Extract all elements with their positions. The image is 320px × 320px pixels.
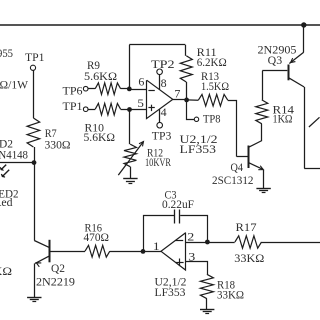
svg-text:R7: R7 — [45, 128, 57, 140]
node pin6 junction — [127, 87, 132, 92]
svg-text:TP3: TP3 — [152, 131, 172, 143]
svg-text:Q4: Q4 — [231, 162, 244, 174]
svg-text:Q2: Q2 — [51, 263, 65, 275]
wire TP2 to op-amp pin8 — [159, 75, 161, 90]
wire LED node to left edge — [0, 162, 34, 164]
svg-text:6: 6 — [138, 77, 144, 89]
wire top +V rail — [0, 24, 320, 26]
svg-text:33KΩ: 33KΩ — [234, 253, 264, 265]
wire Q2 emitter to ground — [34, 263, 36, 297]
wire node to op-amp apex — [143, 251, 161, 253]
svg-text:8: 8 — [161, 78, 167, 90]
transistor Q2 base wire to R16 — [50, 251, 85, 253]
wire op-amp pin3 — [186, 262, 208, 275]
op-amp minus sign pin6 — [148, 90, 154, 92]
transistor Q4 collector lead — [249, 141, 263, 148]
wire top to R11 — [185, 45, 187, 56]
svg-text:5.6KΩ: 5.6KΩ — [84, 71, 117, 83]
wire R12 to ground — [130, 167, 132, 179]
wire R14 top to Q3 base corner — [262, 71, 264, 100]
test point TP2 terminal — [157, 69, 163, 75]
wire bottom of right edge element — [304, 168, 320, 170]
svg-text:Q3: Q3 — [268, 55, 283, 67]
op-amp plus sign pin5 — [148, 107, 154, 109]
node op-amp U2 pin1 output junction — [141, 249, 146, 254]
test point TP6 terminal — [83, 86, 88, 91]
wire op-amp pin2 to R17 — [186, 242, 235, 244]
svg-text:TP1: TP1 — [25, 52, 45, 64]
node pin2/C3 junction — [205, 240, 210, 245]
svg-text:2SC1312: 2SC1312 — [212, 175, 254, 187]
wire pin5 node to op-amp — [130, 109, 147, 111]
wire C3 right to pin2 node — [180, 216, 207, 243]
wire R17 to right edge — [262, 242, 320, 244]
resistor R7 — [27, 118, 40, 147]
svg-text:TP6: TP6 — [63, 86, 83, 98]
svg-text:2: 2 — [187, 231, 194, 243]
node LED junction — [32, 160, 37, 165]
op-amp U2 first half LF353 (top) — [147, 80, 173, 118]
test point TP3 terminal — [157, 122, 163, 128]
resistor R10 — [95, 103, 120, 115]
wire op-amp pin4 to TP3 — [159, 109, 161, 122]
wire R13 to Q4 base — [228, 101, 237, 157]
wire R9 to pin6 node — [121, 88, 130, 90]
wire R18 to ground — [206, 299, 208, 310]
svg-text:LF353: LF353 — [155, 287, 186, 299]
svg-text:330Ω: 330Ω — [45, 140, 71, 152]
wire LED node down to Q2 collector — [34, 163, 36, 241]
svg-text:5: 5 — [137, 98, 144, 110]
transistor Q2 base bar — [49, 240, 51, 262]
svg-text:LF353: LF353 — [180, 144, 217, 156]
ground under Q2 — [27, 297, 41, 299]
svg-text:33KΩ: 33KΩ — [217, 290, 244, 302]
transistor Q2 emitter lead with arrow — [35, 256, 49, 263]
transistor Q3 base wire — [262, 70, 287, 72]
svg-text:470Ω: 470Ω — [84, 232, 110, 244]
svg-text:30Ω/1W: 30Ω/1W — [0, 80, 28, 92]
svg-text:1: 1 — [153, 241, 160, 253]
wire C3 left — [144, 216, 175, 252]
ground under Q4 — [256, 188, 270, 190]
svg-text:2N2219: 2N2219 — [36, 277, 75, 289]
transistor Q3 collector lead — [288, 78, 304, 87]
op-amp minus sign pin2 — [175, 240, 183, 242]
svg-text:0.22uF: 0.22uF — [162, 199, 194, 211]
wire output node to TP8 — [187, 100, 195, 120]
ground under R18 — [200, 309, 214, 311]
svg-text:1N955: 1N955 — [0, 48, 13, 60]
transistor Q3 emitter lead with arrow — [289, 52, 303, 63]
op-amp U2 second half LF353 (bottom) — [161, 233, 186, 270]
svg-text:1KΩ: 1KΩ — [273, 114, 293, 126]
node rail junction — [301, 22, 306, 27]
svg-text:Red: Red — [0, 197, 13, 209]
wire feedback from pin6 node up — [129, 45, 131, 89]
node pin7 output junction — [184, 98, 189, 103]
test point TP8 terminal — [194, 117, 198, 121]
svg-text:TP8: TP8 — [203, 114, 221, 126]
potentiometer R12 — [124, 144, 136, 167]
svg-text:TP1: TP1 — [63, 101, 83, 113]
wire Q4 emitter to ground — [263, 170, 265, 189]
potentiometer arrow (cut off at right edge) — [309, 117, 320, 127]
transistor Q3 base bar — [288, 65, 290, 81]
wire R16 to op-amp output node — [110, 251, 143, 253]
resistor R18 — [200, 274, 213, 298]
wire R14 bottom to Q4 collector — [261, 124, 263, 141]
ground under R12 — [123, 178, 137, 180]
transistor Q4 emitter lead with arrow — [249, 163, 264, 170]
svg-text:5.6KΩ: 5.6KΩ — [84, 132, 116, 144]
transistor Q2 collector lead — [34, 241, 49, 248]
svg-text:1N4148: 1N4148 — [0, 150, 28, 162]
svg-text:4: 4 — [161, 107, 167, 119]
wire feedback top — [129, 44, 185, 46]
wire Q3 collector down right edge — [304, 87, 306, 168]
capacitor C3 plates — [174, 210, 176, 224]
wire R10 to pin5 node — [121, 109, 130, 111]
op-amp plus sign pin3 — [176, 262, 184, 264]
wire TP6 to R9 — [88, 88, 95, 90]
wire R11 to output node — [186, 82, 188, 100]
resistor R11 — [180, 56, 192, 82]
wire R7 to LED node — [34, 147, 36, 162]
wire rail to Q3 emitter — [303, 25, 305, 52]
svg-text:10KVR: 10KVR — [145, 157, 171, 169]
transistor Q4 base wire — [237, 156, 248, 158]
wire pin6 node to op-amp — [129, 89, 146, 91]
test point TP1 terminal (second) — [83, 107, 88, 112]
test point TP1 terminal — [30, 65, 35, 70]
node pin5 junction — [127, 107, 132, 112]
svg-text:KΩ: KΩ — [0, 266, 12, 278]
transistor Q4 base bar — [248, 146, 250, 169]
wire op-amp output to node — [173, 99, 187, 101]
wire pin5 node down to R12 — [129, 110, 131, 145]
svg-text:R17: R17 — [236, 222, 257, 234]
LED2 emission arrows (cut off at edge) — [1, 165, 6, 170]
svg-text:1.5KΩ: 1.5KΩ — [201, 81, 229, 93]
wire TP1 down to R7 — [33, 71, 35, 119]
svg-text:6.2KΩ: 6.2KΩ — [197, 57, 227, 69]
wire TP1 to R10 — [88, 109, 95, 111]
svg-text:7: 7 — [174, 89, 180, 101]
svg-text:TP2: TP2 — [151, 59, 175, 71]
